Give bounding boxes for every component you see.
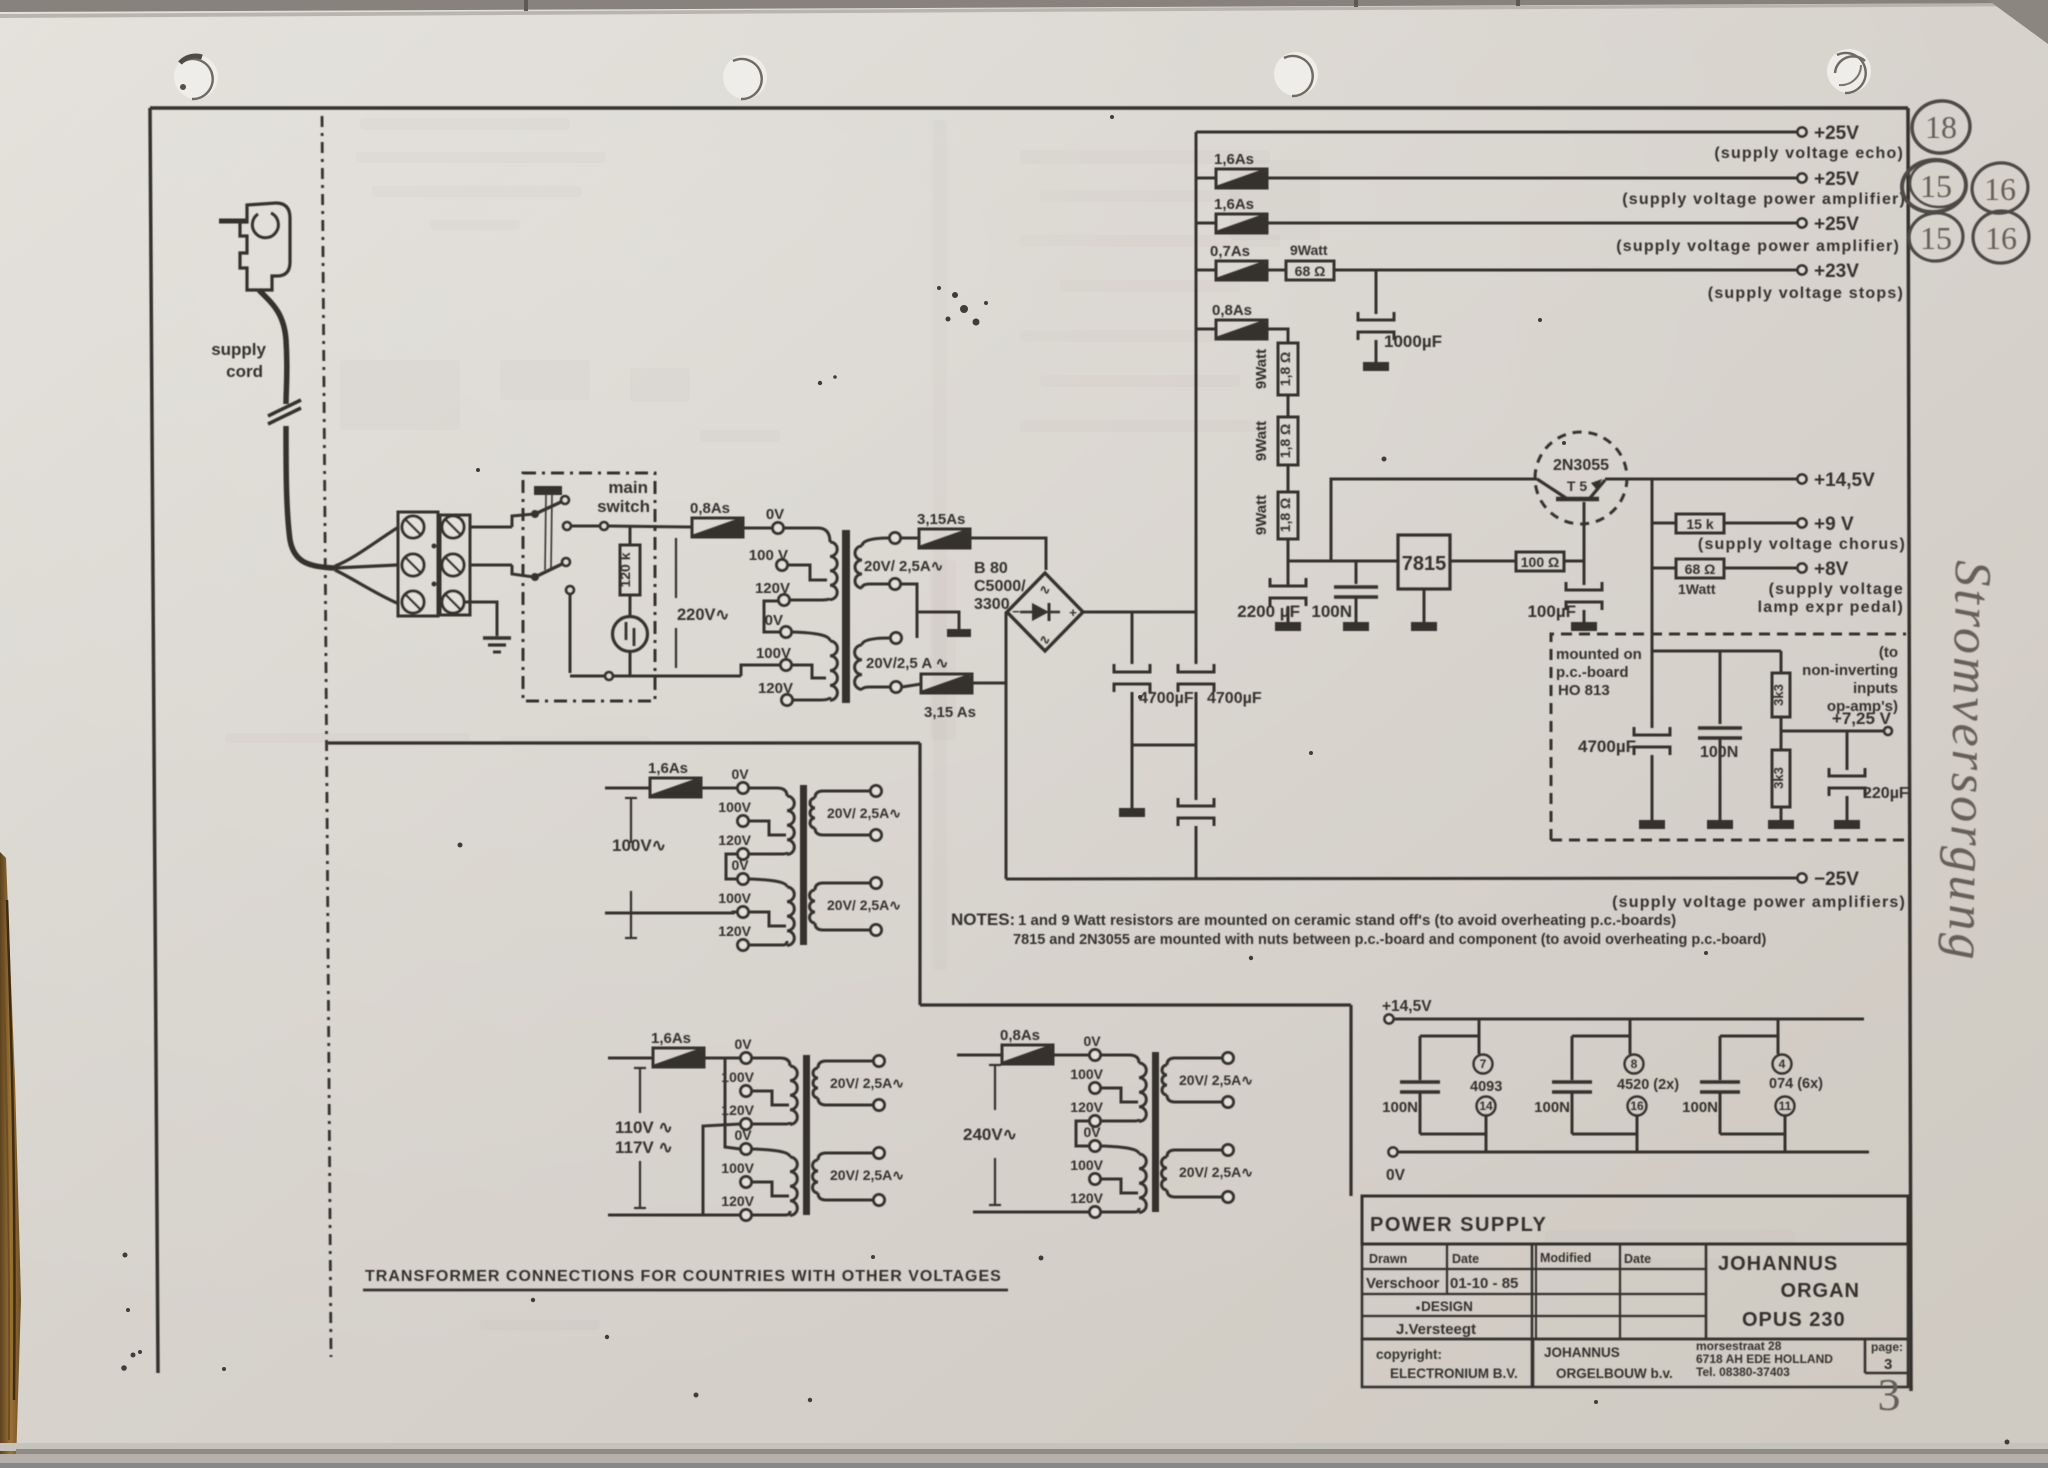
primary winding lower bbox=[830, 641, 837, 700]
svg-text:20V/ 2,5A∿: 20V/ 2,5A∿ bbox=[827, 805, 901, 821]
wire box top net bbox=[1652, 650, 1781, 653]
svg-text:100V: 100V bbox=[1070, 1066, 1103, 1082]
link 120V to mid 0V bbox=[764, 601, 780, 632]
svg-text:0V: 0V bbox=[766, 506, 784, 523]
fuse 0,8As primary bbox=[692, 518, 743, 537]
tap 120V lower connection [A] bbox=[749, 941, 787, 945]
wire secondary to fuse 3,15As bottom bbox=[902, 684, 921, 687]
svg-text:9Watt: 9Watt bbox=[1253, 421, 1270, 461]
mains plug bbox=[219, 219, 247, 224]
pcb mounting dashed box bbox=[1551, 634, 1906, 840]
resistor R 1,8 Ohm c bbox=[1278, 492, 1298, 539]
terminal +25V a bbox=[1798, 174, 1807, 183]
svg-text:01-10 - 85: 01-10 - 85 bbox=[1450, 1275, 1518, 1292]
svg-text:14: 14 bbox=[1479, 1099, 1493, 1113]
svg-text:+14,5V: +14,5V bbox=[1382, 998, 1432, 1015]
capacitor 100N b bbox=[1719, 651, 1722, 724]
svg-text:4093: 4093 bbox=[1470, 1079, 1502, 1095]
svg-text:p.c.-board: p.c.-board bbox=[1556, 664, 1629, 681]
capacitor 4700uF B bbox=[1195, 612, 1198, 664]
svg-text:3,15 As: 3,15 As bbox=[924, 704, 976, 721]
tap 120V connection [B] bbox=[752, 1122, 790, 1124]
terminal +25V b bbox=[1798, 219, 1807, 228]
wire chip to 0V 074 (6x) bbox=[1784, 1116, 1787, 1152]
tap 120V lower connection [C] bbox=[1101, 1208, 1139, 1212]
tap 0V variant y0 [B] bbox=[741, 1053, 752, 1064]
wire +25V a bbox=[1267, 177, 1797, 180]
wire chip to 0V 4093 bbox=[1485, 1116, 1488, 1152]
primary winding upper bbox=[830, 542, 837, 600]
resistor 100 Ohm bbox=[1516, 552, 1564, 571]
terminal +8V bbox=[1798, 564, 1807, 573]
fuse 3,15As bottom bbox=[921, 674, 972, 693]
svg-text:100N: 100N bbox=[1700, 744, 1738, 761]
tap 120V variant y66 [C] bbox=[1090, 1116, 1101, 1127]
switch toggle bar bbox=[534, 486, 562, 495]
tap 0V variant y91 [A] bbox=[738, 874, 749, 885]
earth ground symbol bbox=[483, 636, 511, 640]
tap 0V mid bbox=[781, 627, 792, 638]
pin 11 074 (6x) bbox=[1776, 1097, 1795, 1116]
capacitor 100N 4520 (2x) bbox=[1572, 1035, 1630, 1038]
svg-text:0,7As: 0,7As bbox=[1210, 243, 1250, 260]
svg-text:+25V: +25V bbox=[1814, 214, 1859, 235]
svg-text:HO 813: HO 813 bbox=[1558, 682, 1610, 699]
svg-text:TRANSFORMER CONNECTIONS FOR: TRANSFORMER CONNECTIONS FOR COUNTRIES WI… bbox=[365, 1268, 1002, 1285]
capacitor 1000uF branch bbox=[1375, 270, 1378, 314]
primary winding upper variant [B] bbox=[752, 1058, 790, 1066]
svg-text:Date: Date bbox=[1624, 1252, 1651, 1266]
svg-text:100µF: 100µF bbox=[1527, 602, 1576, 621]
svg-text:100N: 100N bbox=[1682, 1099, 1718, 1116]
svg-text:−: − bbox=[1012, 604, 1020, 619]
pin 14 4093 bbox=[1477, 1097, 1496, 1116]
svg-text:non-inverting: non-inverting bbox=[1802, 662, 1898, 679]
link 120V to 0V [C] bbox=[1076, 1121, 1089, 1146]
tap 120V variant y66 [A] bbox=[738, 849, 749, 860]
wire 7815 output bbox=[1450, 560, 1516, 563]
svg-text:0V: 0V bbox=[731, 857, 749, 873]
fuse F 1,6As a bbox=[1196, 177, 1216, 180]
fuse 0,8As variant [C] bbox=[1002, 1045, 1053, 1064]
svg-text:68 Ω: 68 Ω bbox=[1685, 561, 1716, 577]
capacitor 2200uF bbox=[1287, 561, 1290, 586]
center tap ground bbox=[947, 629, 971, 637]
svg-text:JOHANNUS: JOHANNUS bbox=[1718, 1253, 1838, 1275]
svg-text:morsestraat 28: morsestraat 28 bbox=[1696, 1339, 1782, 1353]
svg-text:Tel. 08380-37403: Tel. 08380-37403 bbox=[1696, 1365, 1790, 1379]
svg-text:120V: 120V bbox=[758, 680, 793, 697]
svg-text:15: 15 bbox=[1920, 220, 1952, 256]
wire base bbox=[1583, 502, 1586, 561]
terminal block body bbox=[398, 512, 438, 616]
svg-text:15: 15 bbox=[1920, 168, 1952, 204]
tap 100V connection [A] bbox=[749, 821, 786, 835]
wire Rc to node bbox=[1287, 539, 1290, 561]
dimension line variant [C] bbox=[994, 1065, 996, 1110]
svg-text:+9 V: +9 V bbox=[1814, 514, 1854, 535]
svg-text:20V/ 2,5A∿: 20V/ 2,5A∿ bbox=[827, 897, 901, 913]
svg-text:6718 AH EDE HOLLAND: 6718 AH EDE HOLLAND bbox=[1696, 1352, 1833, 1366]
tap 120V lower bbox=[782, 695, 793, 706]
svg-text:switch: switch bbox=[597, 497, 650, 516]
tap 120V bbox=[779, 595, 790, 606]
svg-text:+14,5V: +14,5V bbox=[1814, 470, 1875, 491]
wire 3k3 b to ground bbox=[1780, 807, 1783, 820]
svg-text:op-amp's): op-amp's) bbox=[1827, 698, 1898, 715]
secondary winding 2 variant [B] bbox=[818, 1153, 873, 1160]
wire variant input top [C] bbox=[957, 1054, 1002, 1057]
lamp indicator bbox=[613, 617, 648, 652]
svg-text:+25V: +25V bbox=[1814, 169, 1859, 190]
svg-text:ORGELBOUW b.v.: ORGELBOUW b.v. bbox=[1556, 1366, 1673, 1381]
svg-text:0V: 0V bbox=[1386, 1167, 1406, 1184]
primary winding upper variant [C] bbox=[1101, 1055, 1139, 1063]
wire chip branch 4520 (2x) bbox=[1629, 1019, 1632, 1054]
tap 0V variant y0 [C] bbox=[1090, 1050, 1101, 1061]
tap 0V variant y91 [B] bbox=[741, 1144, 752, 1155]
parallel link bottom [B] bbox=[703, 1124, 740, 1215]
wire switch pole1 output bbox=[571, 525, 600, 528]
tap 100V lower connection [A] bbox=[749, 912, 786, 926]
handwritten circled 15 b bbox=[1907, 210, 1966, 263]
wire fuse to bridge top bbox=[970, 538, 1046, 570]
svg-text:1Watt: 1Watt bbox=[1678, 581, 1716, 597]
svg-text:(supply voltage power amplifie: (supply voltage power amplifier) bbox=[1616, 238, 1900, 255]
svg-text:100V∿: 100V∿ bbox=[612, 836, 666, 855]
fuse F 1,6As b bbox=[1196, 222, 1216, 225]
handwritten circled 16 a bbox=[1968, 159, 2032, 218]
secondary terminals 1 variant [A] bbox=[871, 786, 882, 797]
primary winding lower variant [C] bbox=[1101, 1146, 1139, 1154]
svg-text:20V/ 2,5A∿: 20V/ 2,5A∿ bbox=[864, 558, 943, 575]
svg-text:8: 8 bbox=[1631, 1057, 1638, 1071]
svg-text:4700µF: 4700µF bbox=[1139, 690, 1194, 707]
wire fuse to resistor chain bbox=[1267, 329, 1288, 343]
ground 4700uF A bbox=[1119, 808, 1145, 817]
svg-text:DESIGN: DESIGN bbox=[1421, 1299, 1473, 1314]
svg-text:100N: 100N bbox=[1534, 1099, 1570, 1116]
svg-text:∿: ∿ bbox=[1040, 632, 1051, 647]
secondary winding upper bbox=[862, 538, 889, 546]
svg-text:T 5: T 5 bbox=[1567, 478, 1587, 494]
secondary terminals 2 variant [B] bbox=[874, 1148, 885, 1159]
transformer core variant [C] bbox=[1152, 1052, 1159, 1212]
svg-text:(supply voltage: (supply voltage bbox=[1769, 581, 1904, 598]
svg-text:Date: Date bbox=[1452, 1252, 1479, 1266]
secondary winding 1 variant [B] bbox=[818, 1061, 873, 1068]
pin 16 4520 (2x) bbox=[1628, 1097, 1647, 1116]
svg-text:B 80: B 80 bbox=[974, 560, 1008, 577]
fuse 3,15As top bbox=[919, 529, 970, 548]
resistor 68 Ohm 9Watt bbox=[1267, 269, 1286, 272]
fuse 1,6As variant [A] bbox=[650, 778, 701, 797]
svg-text:240V∿: 240V∿ bbox=[963, 1125, 1017, 1144]
tap 100V connection [C] bbox=[1101, 1088, 1138, 1102]
svg-text:117V ∿: 117V ∿ bbox=[615, 1138, 673, 1157]
svg-text:7815 and 2N3055 are mounted wi: 7815 and 2N3055 are mounted with nuts be… bbox=[1013, 932, 1766, 948]
svg-text:3: 3 bbox=[1878, 1369, 1901, 1420]
wire center tap bbox=[901, 584, 917, 638]
svg-text:120V: 120V bbox=[1070, 1190, 1103, 1206]
svg-text:(supply voltage echo): (supply voltage echo) bbox=[1714, 145, 1904, 162]
terminal 0V node bbox=[1389, 1148, 1398, 1157]
svg-text:main: main bbox=[608, 478, 648, 497]
svg-text:1,8 Ω: 1,8 Ω bbox=[1277, 424, 1293, 459]
terminal +14,5V bbox=[1798, 475, 1807, 484]
title block mid section bbox=[1362, 1244, 1908, 1339]
svg-text:0V: 0V bbox=[765, 612, 783, 629]
svg-text:Drawn: Drawn bbox=[1369, 1252, 1407, 1266]
svg-text:100 Ω: 100 Ω bbox=[1521, 554, 1559, 570]
svg-text:68 Ω: 68 Ω bbox=[1295, 263, 1326, 279]
svg-text:20V/2,5 A ∿: 20V/2,5 A ∿ bbox=[866, 655, 948, 672]
svg-text:100N: 100N bbox=[1311, 602, 1352, 621]
svg-text:074 (6x): 074 (6x) bbox=[1769, 1076, 1823, 1092]
tap 100V lower connection [C] bbox=[1101, 1179, 1138, 1193]
svg-text:Verschoor: Verschoor bbox=[1366, 1275, 1440, 1292]
svg-text:4700µF: 4700µF bbox=[1207, 690, 1262, 707]
partition line horizontal bbox=[328, 741, 920, 744]
transformer core bbox=[842, 530, 850, 703]
secondary winding 2 variant [A] bbox=[815, 883, 870, 890]
capacitor 100N 074 (6x) bbox=[1720, 1035, 1778, 1038]
ground 100N b bbox=[1707, 820, 1733, 829]
fuse F 0,8As rail bbox=[1196, 328, 1216, 331]
wire secondary to fuse 3,15As top bbox=[901, 537, 919, 540]
svg-text:0,8As: 0,8As bbox=[690, 500, 730, 517]
wire +8V bbox=[1724, 567, 1797, 570]
svg-text:supply: supply bbox=[211, 340, 266, 359]
partition line right vertical bbox=[1349, 1005, 1352, 1196]
wire 100 Ohm to base node bbox=[1564, 560, 1584, 563]
wire 0V rail bbox=[1397, 1151, 1869, 1154]
ground 1000uF bbox=[1363, 362, 1389, 371]
secondary terminals 2 variant [A] bbox=[871, 878, 882, 889]
svg-text:16: 16 bbox=[1630, 1099, 1644, 1113]
title block outer bbox=[1362, 1196, 1908, 1244]
svg-text:220V∿: 220V∿ bbox=[677, 606, 729, 624]
svg-text:+25V: +25V bbox=[1814, 123, 1859, 144]
wire regulator input node bbox=[1288, 560, 1398, 563]
svg-text:∿: ∿ bbox=[1040, 582, 1051, 597]
svg-text:−25V: −25V bbox=[1814, 869, 1859, 890]
svg-text:3,15As: 3,15As bbox=[917, 511, 965, 528]
tap 100V bbox=[777, 560, 788, 571]
fuse F 0,7As bbox=[1196, 269, 1216, 272]
wire lamp to 220V rail bbox=[629, 651, 632, 676]
wire bottom input [B] bbox=[608, 1214, 740, 1217]
resistor 3k3 b bbox=[1780, 731, 1783, 750]
parallel link top [B] bbox=[725, 1058, 740, 1149]
primary winding lower variant [B] bbox=[752, 1149, 790, 1157]
svg-text:page:: page: bbox=[1871, 1340, 1903, 1354]
wire negative rail bbox=[1006, 878, 1797, 879]
svg-text:100V: 100V bbox=[1070, 1157, 1103, 1173]
terminal +14,5V node bbox=[1385, 1015, 1394, 1024]
svg-text:100V: 100V bbox=[718, 890, 751, 906]
svg-text:0V: 0V bbox=[734, 1036, 752, 1052]
terminal block screws bbox=[402, 516, 424, 538]
wire collector feed bbox=[1331, 479, 1537, 561]
transformer core variant [A] bbox=[800, 785, 807, 945]
ground 7815 bbox=[1423, 589, 1426, 622]
svg-text:3300: 3300 bbox=[974, 596, 1010, 613]
bridge rectifier B80 bbox=[1007, 573, 1083, 651]
regulator 7815 U1 bbox=[1398, 535, 1450, 589]
svg-text:120V: 120V bbox=[1070, 1099, 1103, 1115]
handwritten circled 16 b bbox=[1970, 207, 2033, 266]
svg-text:120 k: 120 k bbox=[617, 552, 633, 587]
capacitor 4700uF D bbox=[1634, 727, 1670, 735]
terminal block center dots bbox=[432, 544, 437, 549]
wire +9V bbox=[1724, 522, 1797, 525]
svg-text:J.Versteegt: J.Versteegt bbox=[1396, 1321, 1476, 1338]
handwritten circled 18 bbox=[1909, 97, 1974, 157]
svg-text:9Watt: 9Watt bbox=[1253, 349, 1270, 389]
svg-text:1,8 Ω: 1,8 Ω bbox=[1277, 498, 1293, 533]
wire 220V bottom input bbox=[741, 665, 780, 676]
svg-text:(supply voltage stops): (supply voltage stops) bbox=[1708, 285, 1904, 302]
terminal +23V bbox=[1798, 266, 1807, 275]
svg-text:9Watt: 9Watt bbox=[1290, 242, 1328, 258]
secondary upper terminals bbox=[890, 533, 901, 544]
handwritten circled 15 a bbox=[1899, 157, 1968, 215]
terminal +9V bbox=[1798, 519, 1807, 528]
svg-text:120V: 120V bbox=[721, 1193, 754, 1209]
wire +25V b bbox=[1267, 222, 1797, 225]
svg-text:(to: (to bbox=[1879, 644, 1898, 661]
svg-text:120V: 120V bbox=[755, 580, 790, 597]
svg-text:0,8As: 0,8As bbox=[1000, 1027, 1040, 1044]
partition line vertical bbox=[918, 743, 921, 1005]
svg-text:NOTES:: NOTES: bbox=[951, 910, 1015, 929]
svg-text:100V: 100V bbox=[721, 1160, 754, 1176]
tap 100V lower bbox=[781, 660, 792, 671]
terminal +25V echo bbox=[1798, 128, 1807, 137]
resistor 3k3 a bbox=[1780, 651, 1783, 673]
svg-text:ORGAN: ORGAN bbox=[1781, 1280, 1860, 1302]
resistor 15k bbox=[1676, 514, 1724, 533]
ground 100N a bbox=[1343, 622, 1369, 631]
svg-text:16: 16 bbox=[1985, 220, 2017, 256]
resistor 68 Ohm 1Watt bbox=[1676, 559, 1724, 578]
dimension line variant [A] bbox=[630, 798, 632, 843]
svg-text:20V/ 2,5A∿: 20V/ 2,5A∿ bbox=[830, 1167, 904, 1183]
tap 120V variant y157 [B] bbox=[741, 1210, 752, 1221]
wire branch 68 Ohm bbox=[1651, 523, 1654, 568]
secondary winding lower bbox=[862, 638, 889, 645]
primary winding upper variant [A] bbox=[749, 788, 787, 796]
secondary winding 2 variant [C] bbox=[1167, 1150, 1222, 1157]
svg-text:100V: 100V bbox=[756, 645, 791, 662]
tap 100V variant y33 [C] bbox=[1090, 1083, 1101, 1094]
svg-text:(supply voltage power amplifie: (supply voltage power amplifiers) bbox=[1612, 894, 1906, 911]
wire bottom input [C] bbox=[973, 1211, 1089, 1214]
svg-text:copyright:: copyright: bbox=[1376, 1347, 1442, 1362]
wire +7,25V node bbox=[1780, 717, 1783, 731]
tap 100V variant y33 [A] bbox=[738, 816, 749, 827]
tap 0V variant y91 [C] bbox=[1090, 1141, 1101, 1152]
switch pole 1 bbox=[469, 526, 512, 529]
svg-text:220µF: 220µF bbox=[1863, 785, 1909, 802]
secondary winding 1 variant [C] bbox=[1167, 1058, 1222, 1065]
ground 100uF bbox=[1571, 622, 1597, 631]
wire switch pole2 output bbox=[569, 594, 572, 673]
tap 120V variant y66 [B] bbox=[741, 1119, 752, 1130]
svg-text:1,6As: 1,6As bbox=[1214, 151, 1254, 168]
svg-text:120V: 120V bbox=[718, 832, 751, 848]
wire +25V echo output bbox=[1196, 131, 1797, 134]
svg-text:4520 (2x): 4520 (2x) bbox=[1617, 1077, 1679, 1093]
tap 100V variant y124 [A] bbox=[738, 907, 749, 918]
svg-text:20V/ 2,5A∿: 20V/ 2,5A∿ bbox=[830, 1075, 904, 1091]
pin 4 074 (6x) bbox=[1773, 1055, 1792, 1074]
tap 120V connection [A] bbox=[749, 852, 787, 854]
tap 100V variant y124 [B] bbox=[741, 1177, 752, 1188]
svg-text:110V ∿: 110V ∿ bbox=[615, 1118, 673, 1137]
wire 68 node into box bbox=[1651, 568, 1654, 728]
tap 100V variant y33 [B] bbox=[741, 1086, 752, 1097]
svg-text:C5000/: C5000/ bbox=[974, 578, 1026, 595]
svg-text:1,6As: 1,6As bbox=[648, 760, 688, 777]
svg-text:16: 16 bbox=[1984, 171, 2016, 207]
svg-text:OPUS 230: OPUS 230 bbox=[1742, 1309, 1846, 1331]
supply cord bbox=[259, 290, 287, 404]
capacitor 100N a bbox=[1355, 561, 1358, 584]
svg-text:4: 4 bbox=[1779, 1057, 1786, 1071]
svg-text:1,6As: 1,6As bbox=[1214, 196, 1254, 213]
svg-text:1000µF: 1000µF bbox=[1384, 332, 1442, 351]
wire chip branch 074 (6x) bbox=[1777, 1019, 1780, 1054]
wire cord to terminals bbox=[335, 528, 397, 566]
wire emitter to +14,5V bbox=[1605, 478, 1797, 481]
svg-text:2200 µF: 2200 µF bbox=[1237, 602, 1300, 621]
tap 120V lower connection [B] bbox=[752, 1211, 790, 1215]
wire bottom input [A] bbox=[605, 912, 737, 913]
wire bus vertical bbox=[1195, 132, 1198, 612]
pin 8 4520 (2x) bbox=[1625, 1055, 1644, 1074]
svg-text:Stromversorgung: Stromversorgung bbox=[1937, 560, 2001, 963]
transistor 2N3055 T5 bbox=[1535, 432, 1627, 524]
svg-text:20V/ 2,5A∿: 20V/ 2,5A∿ bbox=[1179, 1072, 1253, 1088]
resistor R 1,8 Ohm b bbox=[1278, 417, 1298, 465]
svg-text:18: 18 bbox=[1925, 109, 1957, 145]
svg-text:ELECTRONIUM B.V.: ELECTRONIUM B.V. bbox=[1390, 1366, 1518, 1381]
svg-text:100N: 100N bbox=[1382, 1099, 1418, 1116]
svg-text:120V: 120V bbox=[718, 923, 751, 939]
svg-text:1,8 Ω: 1,8 Ω bbox=[1277, 352, 1293, 387]
svg-text:0,8As: 0,8As bbox=[1212, 302, 1252, 319]
svg-text:100V: 100V bbox=[718, 799, 751, 815]
svg-text:9Watt: 9Watt bbox=[1253, 495, 1270, 535]
capacitor 4700uF A bbox=[1131, 612, 1134, 664]
svg-text:(supply voltage power amplifie: (supply voltage power amplifier) bbox=[1622, 191, 1906, 208]
transformer core variant [B] bbox=[803, 1055, 810, 1215]
wire branch 15k bbox=[1651, 479, 1654, 523]
tap 100V connection [B] bbox=[752, 1091, 789, 1105]
tap 100V variant y124 [C] bbox=[1090, 1174, 1101, 1185]
fuse 1,6As variant [B] bbox=[653, 1048, 704, 1067]
svg-text:cord: cord bbox=[226, 362, 263, 381]
svg-text:7815: 7815 bbox=[1402, 553, 1447, 575]
svg-text:0V: 0V bbox=[734, 1127, 752, 1143]
tap 0V top bbox=[773, 523, 784, 534]
tap 120V connection [C] bbox=[1101, 1119, 1139, 1121]
capacitor 220uF bbox=[1846, 731, 1849, 770]
wire variant input top [B] bbox=[608, 1057, 653, 1060]
link 120V to 0V [A] bbox=[726, 854, 737, 879]
